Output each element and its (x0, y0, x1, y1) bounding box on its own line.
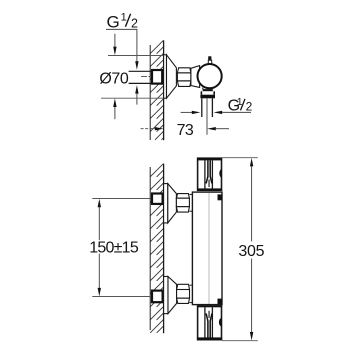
svg-text:G: G (107, 13, 120, 32)
svg-text:150±15: 150±15 (89, 240, 139, 257)
svg-text:1: 1 (121, 12, 127, 24)
svg-text:73: 73 (177, 122, 194, 139)
svg-text:305: 305 (238, 243, 264, 260)
svg-text:Ø70: Ø70 (99, 70, 129, 87)
svg-text:2: 2 (131, 17, 138, 31)
svg-text:2: 2 (246, 99, 253, 113)
